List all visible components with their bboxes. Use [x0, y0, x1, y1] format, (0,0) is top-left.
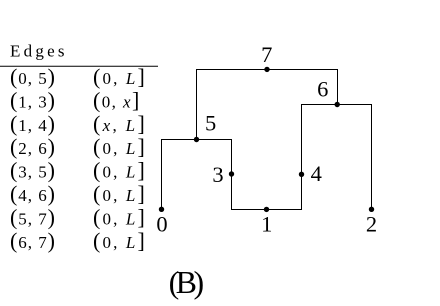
svg-text:2: 2 — [366, 212, 377, 237]
svg-text:0: 0 — [156, 212, 167, 237]
wire: vertical through node 3 from node 5 level to node 1 level — [231, 139, 233, 210]
wire: vertical through node 4 from node 6 level to node 1 level — [301, 104, 303, 210]
svg-text:(5, 7): (5, 7) — [10, 204, 55, 229]
svg-text:3: 3 — [212, 162, 223, 187]
svg-text:(0, L]: (0, L] — [93, 204, 145, 229]
wire: horizontal at node 5 level — [161, 139, 232, 141]
wire: riser node 5 up to node 7 level — [196, 69, 198, 140]
node 5 dot — [194, 137, 199, 142]
svg-text:(0, 5): (0, 5) — [10, 64, 55, 89]
svg-text:(3, 5): (3, 5) — [10, 158, 55, 183]
svg-text:(x, L]: (x, L] — [93, 111, 145, 136]
svg-text:(4, 6): (4, 6) — [10, 181, 55, 206]
svg-text:(6, 7): (6, 7) — [10, 228, 55, 253]
svg-text:(1, 3): (1, 3) — [10, 87, 55, 112]
node 4 dot — [299, 172, 304, 177]
svg-text:(0, L]: (0, L] — [93, 158, 145, 183]
table rule — [0, 65, 158, 67]
svg-text:(0, L]: (0, L] — [93, 228, 145, 253]
svg-text:(B): (B) — [169, 264, 205, 300]
node 3 dot — [229, 171, 234, 176]
svg-text:(2, 6): (2, 6) — [10, 134, 55, 159]
wire: riser node 6 up to node 7 level — [337, 69, 339, 105]
node 6 dot — [335, 102, 340, 107]
svg-text:1: 1 — [261, 211, 272, 236]
node 7 dot — [264, 67, 269, 72]
wire: vertical from node 6 level down to node 2 — [371, 104, 373, 209]
svg-text:(1, 4): (1, 4) — [10, 111, 55, 136]
wire: vertical from node 5 level down to node 0 — [161, 139, 163, 209]
svg-text:4: 4 — [311, 161, 322, 186]
svg-text:(0, x]: (0, x] — [93, 87, 139, 112]
node 2 dot — [369, 207, 374, 212]
svg-text:(0, L]: (0, L] — [93, 64, 145, 89]
node 1 dot — [264, 207, 269, 212]
node 0 dot — [159, 207, 164, 212]
svg-text:5: 5 — [205, 111, 216, 136]
wire: horizontal at node 6 level — [301, 104, 372, 106]
svg-text:7: 7 — [261, 42, 272, 67]
wire: horizontal at node 7 level — [196, 69, 338, 71]
wire: horizontal at node 1 level — [231, 209, 302, 211]
svg-text:Edges: Edges — [10, 42, 65, 61]
svg-text:(0, L]: (0, L] — [93, 181, 145, 206]
svg-text:6: 6 — [317, 76, 328, 101]
svg-text:(0, L]: (0, L] — [93, 134, 145, 159]
